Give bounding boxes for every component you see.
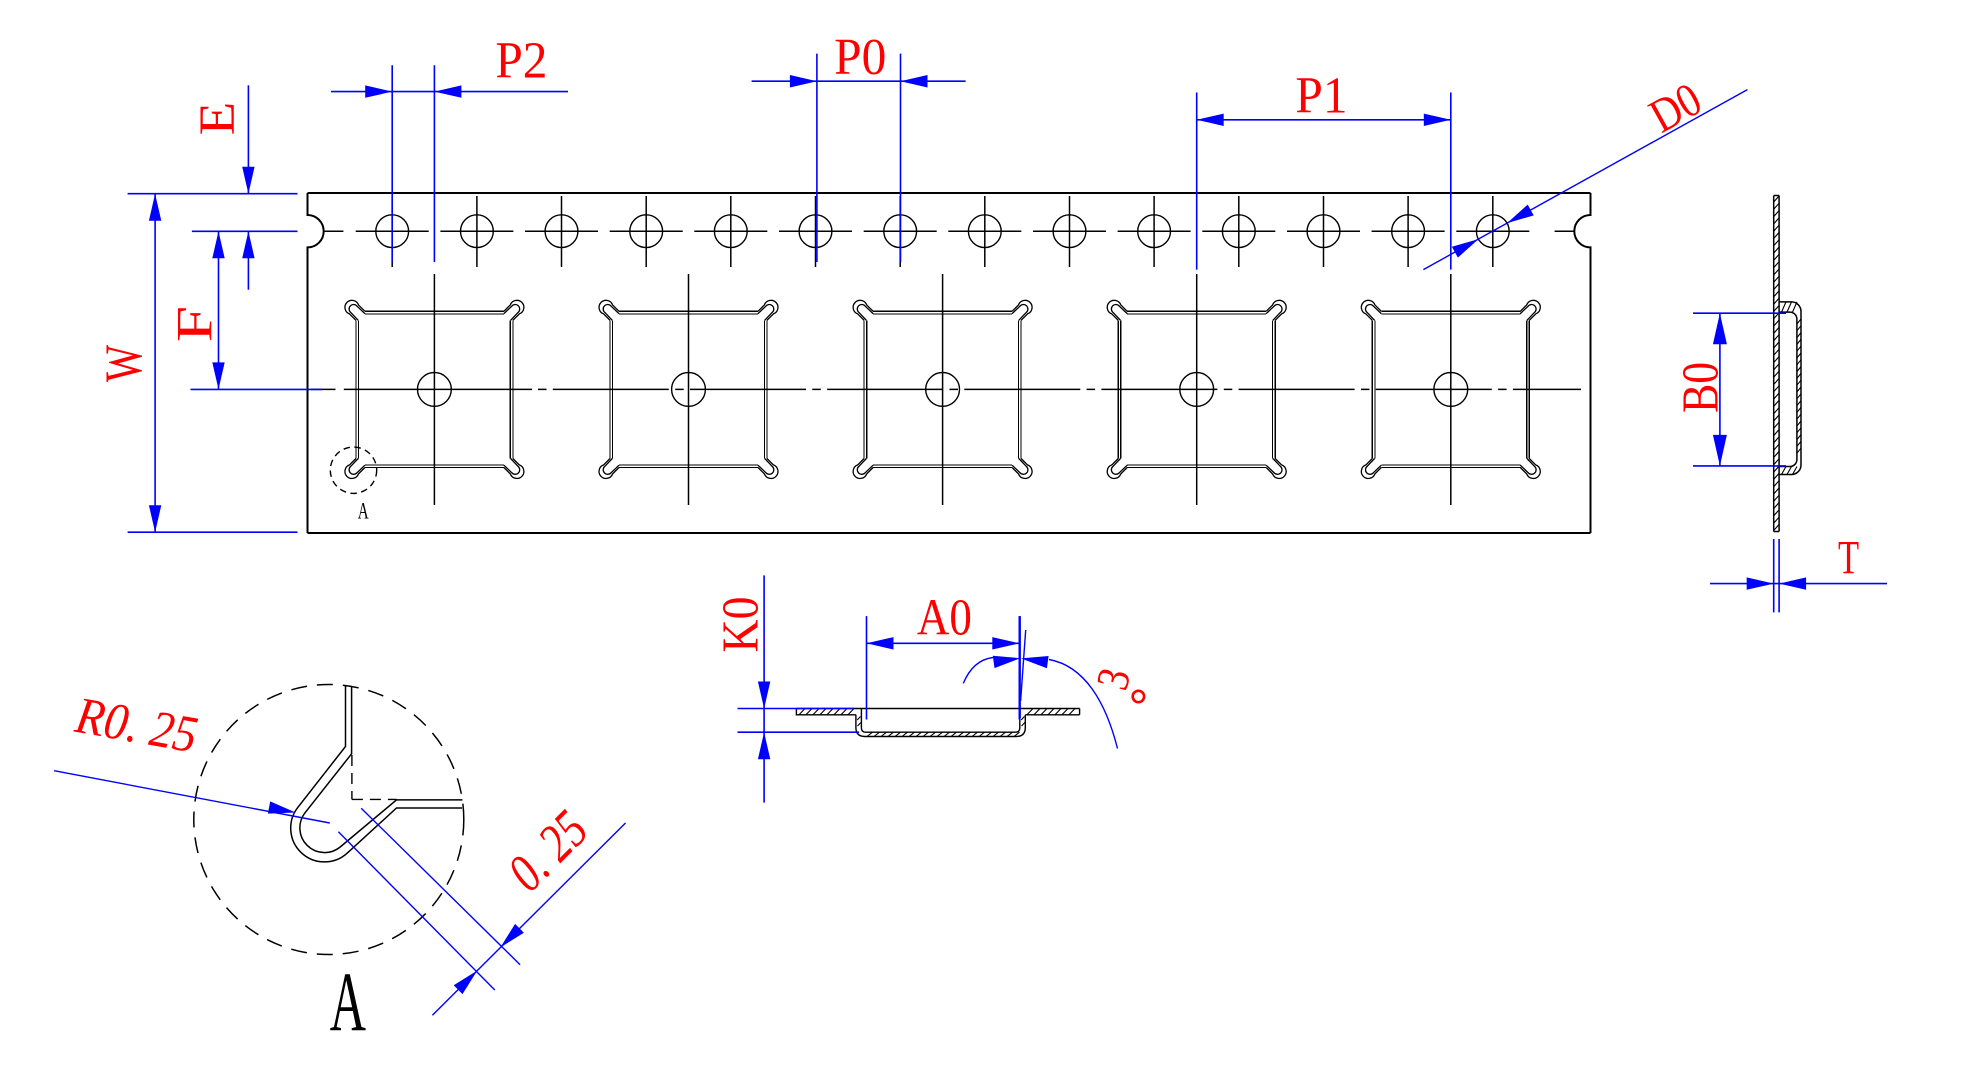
tape horizontal centerline: [311, 388, 1581, 390]
dimension W: [128, 193, 298, 195]
svg-text:A0: A0: [917, 588, 972, 646]
dimension K0: [738, 708, 854, 710]
sprocket hole 10: [1138, 215, 1171, 248]
svg-text:A: A: [330, 956, 366, 1050]
detail A marker circle on pocket 1 corner: [330, 447, 376, 493]
component pocket 1: [345, 300, 524, 478]
dimension B0: [1693, 312, 1786, 314]
sprocket hole 7: [884, 215, 917, 248]
sprocket hole 12: [1307, 215, 1340, 248]
pocket 2 vertical centerline: [688, 274, 690, 505]
svg-text:P0: P0: [834, 28, 886, 85]
dimension 3 degrees draft angle: [1019, 616, 1021, 718]
detail A pocket edge lines: [291, 686, 462, 862]
side view strip hatching: [1774, 196, 1779, 531]
sprocket hole 6: [799, 215, 832, 248]
sprocket row centerline: [324, 230, 1575, 232]
pocket 4 vertical centerline: [1196, 274, 1198, 505]
svg-text:K0: K0: [711, 597, 769, 653]
dimension D0 leader: [1423, 90, 1747, 270]
sprocket hole 2: [461, 215, 494, 248]
sprocket hole 1: [376, 215, 409, 248]
sprocket hole 8: [968, 215, 1001, 248]
sprocket hole 4: [630, 215, 663, 248]
section flange bottoms: [796, 709, 1079, 715]
sprocket hole 5: [714, 215, 747, 248]
svg-text:P1: P1: [1295, 66, 1347, 123]
dimension R0.25 leader: [54, 771, 330, 823]
sprocket hole 9: [1053, 215, 1086, 248]
detail A nominal corner dashed lines: [352, 755, 397, 799]
component pocket 3: [853, 300, 1032, 478]
side view pocket bump inner: [1779, 312, 1797, 466]
pocket 1 vertical centerline: [433, 274, 435, 505]
component pocket 4: [1107, 300, 1286, 478]
section hatching: [799, 709, 1075, 737]
sprocket hole 3: [545, 215, 578, 248]
side view pocket bump outer: [1779, 302, 1801, 475]
side view bump hatching: [1782, 302, 1802, 475]
svg-text:W: W: [94, 345, 153, 382]
section pocket outer wall: [856, 715, 1025, 737]
svg-text:E: E: [190, 102, 246, 136]
svg-text:A: A: [358, 499, 369, 524]
section pocket inner wall: [861, 709, 1019, 733]
dimension P0: [816, 54, 818, 262]
dimension P1: [1196, 93, 1198, 270]
pocket 5 vertical centerline: [1450, 274, 1452, 505]
component pocket 2: [599, 300, 778, 478]
svg-text:P2: P2: [495, 31, 547, 88]
dimension T: [1773, 539, 1775, 612]
side view tape strip: [1773, 196, 1775, 532]
detail A boundary circle: [194, 685, 464, 955]
tape outline: [308, 193, 1591, 533]
pocket 3 vertical centerline: [942, 274, 944, 505]
dimension E: [192, 230, 298, 232]
dimension F: [191, 388, 323, 390]
sprocket hole 13: [1392, 215, 1425, 248]
svg-text:T: T: [1838, 532, 1859, 585]
sprocket hole 14: [1476, 215, 1509, 248]
section top surface: [796, 708, 1079, 710]
sprocket hole 11: [1222, 215, 1255, 248]
component pocket 5: [1361, 300, 1540, 478]
dimension A0: [866, 616, 868, 719]
dimension P2: [391, 65, 393, 262]
svg-text:B0: B0: [1672, 362, 1729, 413]
dimension 0.25 slot width: [361, 808, 520, 965]
svg-text:F: F: [166, 306, 223, 342]
